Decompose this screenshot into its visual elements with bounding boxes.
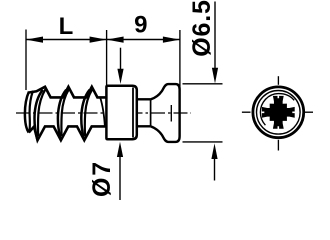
thread band 3 right [85, 89, 93, 136]
centerline tick E [304, 111, 313, 113]
pozidriv recess [262, 96, 295, 129]
svg-text:Ø6.5: Ø6.5 [188, 0, 216, 57]
dimension Ø6.5: leader line bottom [214, 157, 216, 181]
thread partial band at collar [100, 98, 105, 127]
screw thread outline bottom [29, 126, 107, 140]
dimension Ø7: leader line top [120, 48, 122, 70]
extension line head bottom [183, 141, 223, 143]
arrowhead Ø7 up [117, 142, 123, 157]
head outline [151, 84, 180, 142]
dimension line 9 [107, 39, 180, 41]
pozidriv swirl arc [260, 94, 294, 126]
svg-text:9: 9 [134, 11, 147, 38]
collar [106, 86, 136, 140]
screw thread outline top [29, 87, 107, 98]
arrowhead L right [90, 37, 107, 43]
neck-head junction edge [150, 99, 152, 126]
neck bottom [137, 125, 151, 127]
head center tick [170, 105, 172, 122]
extension line head top [183, 83, 223, 85]
centerline tick N [277, 76, 279, 85]
arrowhead 9 left [107, 37, 124, 43]
screw tip band left (tip face) [25, 92, 29, 133]
centerline tick S [277, 140, 279, 151]
screw tip band right [29, 91, 33, 132]
thread band 2 left [58, 90, 66, 140]
arrowhead Ø7 down [117, 69, 123, 84]
dimension Ø6.5: leader line top [214, 2, 216, 71]
arrowhead Ø6.5 up [211, 143, 217, 159]
thread band 1 left [35, 90, 43, 140]
svg-text:L: L [59, 13, 74, 40]
dimension 9: right extension line [179, 30, 181, 137]
centerline tick W [242, 111, 251, 113]
arrowhead Ø6.5 down [212, 68, 218, 84]
thread band 2 right [61, 89, 69, 136]
thread band 3 left [81, 90, 89, 140]
collar edge line [132, 88, 134, 138]
neck top [137, 98, 151, 100]
shared extension line between L and 9 [106, 30, 108, 86]
dimension Ø7: leader line bottom [119, 156, 121, 200]
thread band 1 right [38, 89, 46, 136]
top view inner circle [257, 91, 301, 135]
arrowhead 9 right [163, 37, 180, 43]
top view outer circle [253, 87, 304, 138]
dimension L: left extension line [25, 30, 27, 91]
arrowhead L left [26, 37, 43, 43]
svg-text:Ø7: Ø7 [88, 160, 116, 197]
dimension line L [26, 39, 107, 41]
centerline side view [16, 112, 191, 114]
